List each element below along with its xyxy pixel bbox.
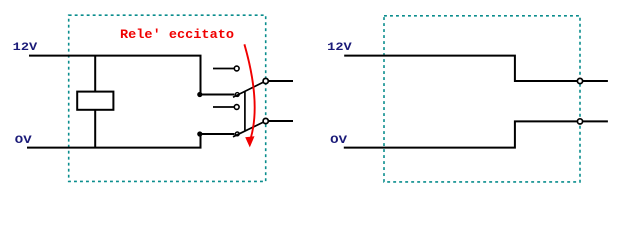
svg-text:OV: OV [15, 135, 32, 147]
svg-text:OV: OV [330, 135, 347, 147]
svg-text:Rele' eccitato: Rele' eccitato [120, 27, 234, 42]
svg-text:12V: 12V [13, 42, 38, 54]
svg-text:12V: 12V [327, 42, 352, 54]
